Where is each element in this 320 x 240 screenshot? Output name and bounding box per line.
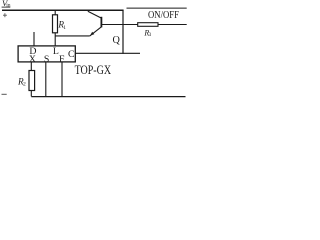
svg-text:ON/OFF: ON/OFF (148, 9, 179, 21)
svg-text:1: 1 (63, 25, 66, 31)
svg-text:Q: Q (113, 35, 121, 46)
svg-text:F: F (59, 54, 65, 65)
svg-text:S: S (44, 54, 49, 65)
svg-text:X: X (29, 54, 36, 65)
svg-text:2: 2 (23, 81, 26, 87)
svg-text:L: L (53, 46, 59, 57)
svg-text:TOP-GX: TOP-GX (75, 63, 112, 77)
svg-text:C: C (68, 49, 75, 60)
svg-text:in: in (6, 3, 11, 9)
svg-text:3: 3 (149, 32, 152, 38)
